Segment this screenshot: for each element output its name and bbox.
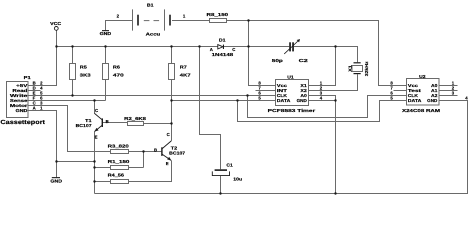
wire C1 branch from VCC rail bbox=[200, 47, 221, 170]
svg-text:P1: P1 bbox=[24, 75, 32, 80]
wire R5 top lead bbox=[72, 47, 74, 64]
svg-text:4K7: 4K7 bbox=[180, 72, 192, 77]
svg-text:BC107: BC107 bbox=[76, 123, 93, 128]
node C1 branch bbox=[198, 45, 200, 47]
svg-text:GND: GND bbox=[100, 31, 112, 36]
svg-text:GND: GND bbox=[50, 179, 62, 184]
svg-text:R2_6K8: R2_6K8 bbox=[124, 116, 147, 121]
node CLK branch on Write line bbox=[246, 94, 248, 96]
svg-text:R6: R6 bbox=[113, 64, 121, 69]
node R3 / T2 base bbox=[142, 150, 144, 152]
wire R3 right to T2 base bbox=[129, 151, 162, 153]
resistor R6 470 bbox=[103, 64, 125, 80]
svg-text:R5: R5 bbox=[80, 64, 88, 69]
svg-text:DATA: DATA bbox=[408, 98, 422, 103]
node U1 GND on bottom rail bbox=[334, 192, 336, 194]
wire R5 bottom lead bbox=[72, 80, 74, 96]
svg-text:B: B bbox=[106, 119, 109, 124]
node GND jog left bbox=[55, 160, 57, 162]
svg-text:R4_56: R4_56 bbox=[108, 173, 125, 178]
svg-text:R8_150: R8_150 bbox=[207, 12, 229, 17]
wire U1 pin7 stub bbox=[256, 90, 276, 92]
svg-text:R3_820: R3_820 bbox=[108, 144, 130, 149]
wire R7 bottom lead / T2 collector riser bbox=[171, 80, 173, 141]
wire R7 top lead bbox=[171, 47, 173, 64]
wire R2 right to T2 collector riser bbox=[144, 123, 172, 125]
wire crystal bottom to U1 pin2 X2 bbox=[309, 74, 358, 90]
ground symbol at battery bbox=[100, 30, 112, 36]
wire DATA line R7/T2 to U1 pin5 bbox=[172, 100, 276, 102]
node U1 pin1 riser on osc rail bbox=[334, 45, 336, 47]
wire GND pin down to ground bbox=[28, 111, 57, 178]
wire bottom ground rail bbox=[95, 101, 468, 194]
node R6 top bbox=[104, 45, 106, 47]
resistor R1 150 bbox=[108, 159, 131, 170]
resistor R8 150 bbox=[207, 12, 229, 23]
wire T1 emitter down to bottom rail bbox=[94, 131, 96, 193]
wire Read pin stub bbox=[28, 90, 41, 92]
IC U2 X24C08 RAM bbox=[390, 74, 468, 113]
wire U2 pin3 stub bbox=[439, 95, 458, 97]
node D1 cathode / battery / U1 Vcc bbox=[247, 45, 249, 47]
svg-text:Accu: Accu bbox=[146, 32, 161, 37]
node GND jog right on emitter bbox=[93, 160, 95, 162]
wire R6 top lead bbox=[105, 47, 107, 64]
svg-text:Cassetteport: Cassetteport bbox=[0, 119, 45, 126]
wire C1 bottom lead bbox=[220, 176, 222, 194]
IC U1 PCF8583 Timer bbox=[258, 75, 322, 113]
svg-text:PCF8583 Timer: PCF8583 Timer bbox=[268, 108, 316, 113]
wire battery pin2 to GND stub bbox=[106, 21, 133, 31]
svg-text:C2: C2 bbox=[299, 58, 309, 63]
svg-text:50p: 50p bbox=[272, 58, 284, 63]
svg-text:BC107: BC107 bbox=[169, 151, 186, 156]
wire D1 cathode rail to C2 bbox=[224, 46, 290, 48]
svg-text:D1: D1 bbox=[219, 38, 226, 43]
node DATA branch bbox=[236, 99, 238, 101]
wire R4 left to T1 emitter bbox=[95, 181, 111, 183]
wire U1 pin3 A0 to GND bbox=[309, 96, 336, 101]
svg-text:GND: GND bbox=[16, 108, 28, 113]
wire U1 pin1 X1 to oscillator rail bbox=[309, 47, 336, 86]
svg-text:C: C bbox=[167, 132, 170, 137]
svg-text:A: A bbox=[33, 106, 36, 111]
resistor R3 820 bbox=[108, 144, 130, 154]
node R5 bottom on Write line bbox=[71, 94, 73, 96]
diode D1 1N4148 bbox=[210, 38, 236, 57]
wire R1 left to T1 emitter bbox=[95, 167, 111, 169]
resistor R5 3K3 bbox=[70, 64, 92, 80]
connector P1 Cassetteport bbox=[0, 75, 45, 126]
resistor R2 6K8 bbox=[124, 116, 147, 126]
node VCC rail / +5V riser bbox=[55, 45, 57, 47]
transistor T2 BC107 bbox=[154, 132, 186, 166]
node battery rail at R8 bbox=[247, 19, 249, 21]
capacitor C1 10u bbox=[212, 162, 242, 181]
wire Motor line to R3 bbox=[28, 106, 111, 152]
node R5 top bbox=[71, 45, 73, 47]
wire VCC rail to D1 anode bbox=[57, 46, 218, 48]
svg-text:B1: B1 bbox=[147, 2, 154, 7]
svg-text:B: B bbox=[154, 147, 157, 152]
svg-text:10u: 10u bbox=[233, 177, 242, 182]
node R7 top bbox=[170, 45, 172, 47]
power VCC symbol bbox=[50, 21, 61, 30]
svg-text:R7: R7 bbox=[180, 64, 188, 69]
wire T1 collector from Sense line bbox=[94, 101, 96, 114]
wire R8 to U2 Vcc rail bbox=[226, 21, 406, 86]
wire CLK branch loop to U2 pin6 bbox=[248, 96, 407, 118]
resistor R4 56 bbox=[108, 173, 129, 184]
wire battery pin1 to R8 bbox=[172, 20, 209, 22]
svg-text:X1: X1 bbox=[348, 64, 353, 71]
svg-text:U1: U1 bbox=[287, 75, 294, 80]
svg-text:GND: GND bbox=[427, 98, 437, 103]
node R4 on emitter line bbox=[93, 180, 95, 182]
svg-text:C: C bbox=[95, 108, 98, 113]
wire Sense line P1 to T1 collector and R6 bbox=[28, 100, 106, 102]
svg-text:32kHz: 32kHz bbox=[364, 61, 369, 76]
wire R6 bottom lead bbox=[105, 80, 107, 101]
svg-text:3K3: 3K3 bbox=[80, 72, 92, 77]
wire U2 pin2 stub bbox=[439, 90, 458, 92]
svg-text:DATA: DATA bbox=[277, 98, 291, 103]
svg-text:E: E bbox=[166, 161, 169, 166]
transistor T1 BC107 bbox=[76, 108, 109, 139]
resistor R7 4K7 bbox=[169, 64, 192, 80]
crystal X1 32kHz bbox=[348, 61, 369, 76]
wire Write/CLK line P1 to U1 pin6 bbox=[28, 95, 276, 97]
svg-text:E: E bbox=[95, 134, 98, 139]
node R7 / T2 collector on DATA line bbox=[170, 99, 172, 101]
svg-text:470: 470 bbox=[113, 72, 125, 77]
wire R3/R1 junction vertical bbox=[143, 152, 145, 168]
wire GND jog to T1 emitter bbox=[57, 161, 95, 163]
node C1 on bottom rail bbox=[219, 192, 221, 194]
node R2 on T2 collector riser bbox=[170, 122, 172, 124]
ground symbol at cassette port bbox=[50, 177, 62, 184]
node T1 collector on Sense line bbox=[93, 99, 95, 101]
svg-text:VCC: VCC bbox=[50, 21, 61, 26]
svg-text:C1: C1 bbox=[226, 162, 233, 167]
trimmer capacitor C2 50p bbox=[272, 39, 309, 63]
wire R4 right to T2 emitter bbox=[129, 161, 172, 182]
svg-text:GND: GND bbox=[297, 98, 307, 103]
wire U2 pin7 stub bbox=[394, 90, 407, 92]
wire U2 pin1 stub bbox=[439, 85, 458, 87]
wire R1 right bbox=[129, 167, 144, 169]
battery B1 bbox=[117, 2, 186, 36]
node R1 on emitter line bbox=[93, 166, 95, 168]
wire U1 pin4 GND down to rail bbox=[309, 101, 336, 194]
node U1 pin3/pin4 join bbox=[334, 99, 336, 101]
svg-text:X24C08 RAM: X24C08 RAM bbox=[402, 108, 441, 113]
wire R8 junction down to D1 rail and U1 pin8 Vcc bbox=[249, 21, 276, 86]
wire DATA branch loop to U2 pin5 bbox=[238, 101, 407, 122]
wire VCC vertical to +5V pin bbox=[28, 30, 57, 85]
wire C2 to crystal top bbox=[294, 47, 358, 63]
svg-text:1N4148: 1N4148 bbox=[212, 52, 234, 57]
svg-text:U2: U2 bbox=[419, 74, 426, 79]
svg-text:R1_150: R1_150 bbox=[108, 159, 131, 164]
wire T1 base to R2 bbox=[103, 122, 128, 124]
